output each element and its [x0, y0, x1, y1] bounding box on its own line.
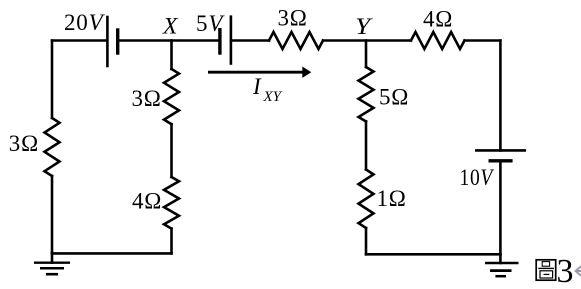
svg-text:5Ω: 5Ω [379, 85, 409, 110]
wire left vertical lower [51, 176, 54, 253]
ground stem left [51, 253, 54, 262]
svg-text:10V: 10V [460, 165, 495, 190]
svg-text:3: 3 [557, 253, 574, 289]
resistor R6 5ohm below Y zigzag [359, 67, 374, 122]
wire top-right horizontal to right corner [465, 39, 501, 42]
svg-text:5V: 5V [196, 11, 225, 36]
svg-text:4Ω: 4Ω [423, 7, 453, 32]
resistor R1 3ohm left vertical zigzag [45, 118, 60, 176]
wire top between 20V battery and 5V battery through node X [118, 39, 220, 42]
battery V2 5V long plate [230, 17, 233, 64]
svg-text:1Ω: 1Ω [377, 186, 407, 211]
wire Y branch to bottom [365, 228, 368, 254]
svg-text:Y: Y [355, 14, 373, 39]
wire node Y vertical drop [365, 41, 368, 68]
wire between 3ohm and 4ohm on X branch [170, 124, 173, 177]
wire top-left horizontal [52, 39, 107, 42]
wire from 5V battery to resistor 3ohm horizontal [231, 39, 269, 42]
ground right bars [485, 263, 519, 276]
svg-text:3Ω: 3Ω [9, 131, 39, 156]
resistor R2 3ohm below X zigzag [164, 69, 179, 124]
svg-text:X: X [162, 14, 178, 39]
wire top between 3ohm and 4ohm through node Y [323, 39, 411, 42]
battery V1 20V long plate [106, 17, 109, 66]
wire left vertical upper [51, 41, 54, 119]
resistor R4h 4ohm horizontal zigzag [411, 32, 465, 49]
resistor R5 4ohm below X zigzag [164, 177, 179, 229]
battery V1 20V short plate [116, 30, 119, 53]
current arrow IXY head [302, 67, 311, 78]
wire node X vertical drop [170, 41, 173, 70]
ground left bars [34, 263, 70, 275]
wire bottom-left horizontal [52, 252, 172, 255]
resistor R3h 3ohm horizontal zigzag [269, 32, 323, 49]
battery V2 5V short plate [218, 30, 221, 53]
wire between 5ohm and 1ohm on Y branch [365, 122, 368, 170]
resistor R7 1ohm below Y zigzag [359, 170, 374, 229]
ground stem right [499, 254, 502, 263]
svg-text:XY: XY [263, 89, 283, 105]
svg-text:3Ω: 3Ω [132, 86, 162, 111]
wire bottom-right horizontal [366, 253, 500, 256]
wire right vertical upper [499, 41, 502, 151]
battery V3 10V long plate [476, 149, 525, 152]
svg-text:I: I [252, 74, 262, 99]
svg-text:3Ω: 3Ω [278, 6, 308, 31]
figure caption: character tu (drawn) [536, 260, 556, 280]
wire right vertical lower [499, 161, 502, 255]
svg-text:4Ω: 4Ω [132, 189, 162, 214]
current arrow IXY line [208, 71, 303, 74]
battery V3 10V short plate [490, 159, 511, 162]
word return mark (lavender) [576, 266, 581, 275]
svg-text:20V: 20V [64, 10, 106, 35]
wire X branch to bottom [170, 229, 173, 254]
